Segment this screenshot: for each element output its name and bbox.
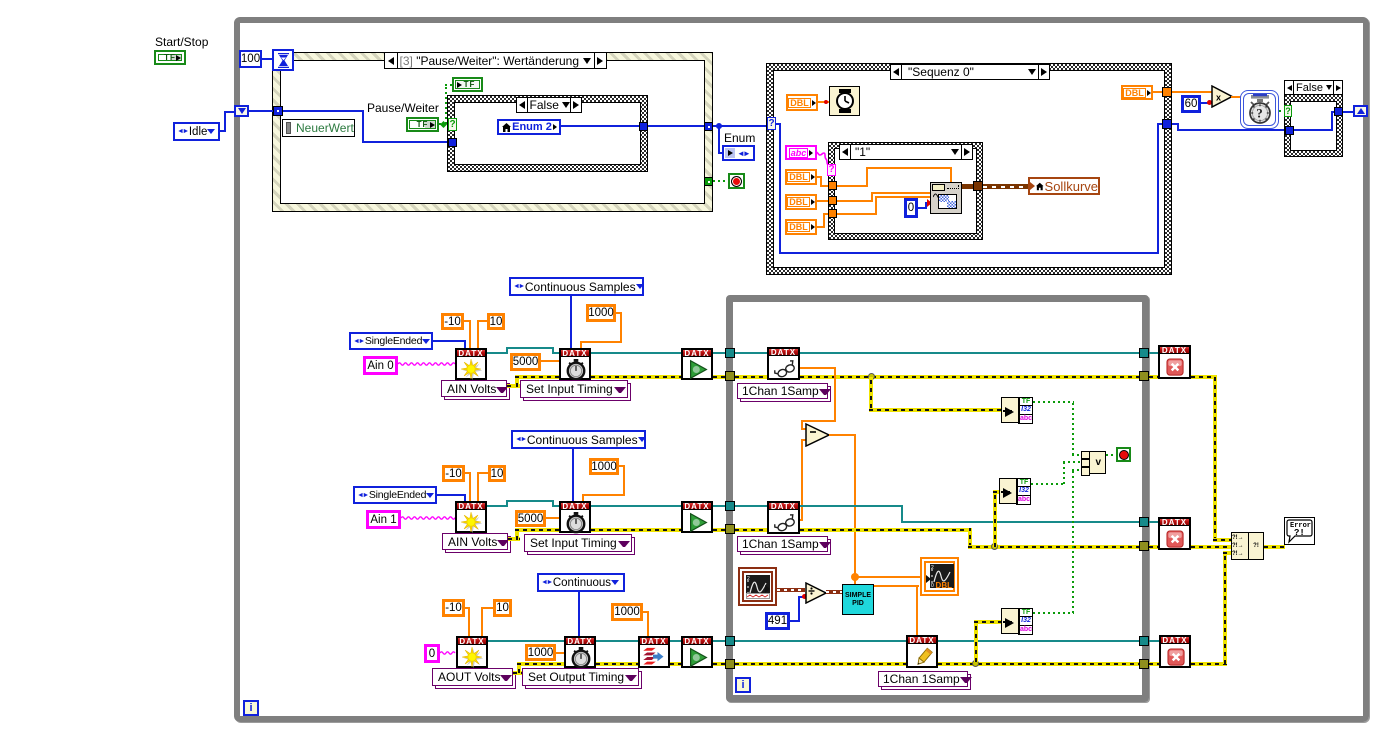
wire 491 to divide bbox=[790, 620, 800, 622]
junction dot error row1 bbox=[868, 373, 875, 380]
stop button (red round) bbox=[728, 173, 745, 189]
label AIN Volts (row1) bbox=[441, 380, 507, 397]
error wire X3 to merge bbox=[1191, 662, 1227, 666]
event timeout terminal (hourglass) bbox=[272, 49, 294, 71]
local variable Sollkurve bbox=[1028, 177, 1100, 195]
unbundle node u1 (error cluster) bbox=[1001, 397, 1033, 423]
DATX node stopwatch (row3: Set Output Timing) bbox=[564, 636, 596, 668]
teal task wire sun to timing (row2) bbox=[487, 505, 508, 507]
tunnel error row2 right bbox=[1139, 541, 1149, 551]
constant 0 (blue) bbox=[904, 198, 918, 218]
iteration terminal i (inner loop) bbox=[735, 677, 751, 693]
constant -10 (row1) bbox=[441, 313, 464, 330]
tunnel (brown, case "1" right) bbox=[973, 181, 983, 191]
green dotted wire u1 to OR bbox=[1033, 401, 1074, 403]
local variable Enum 2 bbox=[497, 119, 561, 135]
compound OR node bbox=[1081, 451, 1106, 474]
enum SingleEnded (row1) bbox=[349, 332, 433, 350]
wire Idle to shift register bbox=[219, 130, 226, 132]
case label False (small) bbox=[1284, 80, 1343, 95]
wire case tunnel to event tunnel bbox=[648, 125, 705, 127]
wire 10 to sun (row2) bbox=[477, 472, 488, 474]
teal wire row3 inner bbox=[735, 640, 906, 642]
error handler icon (Error ?!) bbox=[1284, 517, 1315, 545]
teal wire to X2 bbox=[1149, 521, 1158, 523]
boolean control Pause/Weiter TF bbox=[406, 117, 439, 132]
green dotted wire u2 to OR bbox=[1031, 483, 1065, 485]
error wire row3 bbox=[513, 671, 522, 675]
DATX node play (row1: Start) bbox=[681, 348, 713, 380]
case label False bbox=[516, 97, 582, 113]
teal wire to X3 bbox=[1149, 640, 1159, 642]
constant 491 bbox=[765, 612, 790, 630]
wire 10 to sun (row3) bbox=[481, 607, 493, 609]
junction dot error row2 bbox=[991, 543, 998, 550]
label Set Output Timing bbox=[522, 668, 639, 686]
label AOUT Volts bbox=[432, 668, 513, 686]
junction dot orange bbox=[851, 573, 859, 581]
wait (ms) clock icon bbox=[829, 86, 860, 116]
error branch up to unbundle2 bbox=[993, 490, 997, 547]
wire -10 to sun (row3) bbox=[465, 607, 470, 609]
tunnel teal row3 left bbox=[725, 636, 735, 646]
svg-text:2: 2 bbox=[931, 565, 934, 571]
junction dot on enum wire bbox=[716, 123, 722, 129]
iteration terminal i (outer loop) bbox=[243, 700, 259, 716]
wire t2 to array node bbox=[837, 200, 873, 202]
inner case selector ? (pink) bbox=[827, 164, 836, 176]
error wire to X3 bbox=[1149, 662, 1159, 666]
string control Ain 1 bbox=[366, 510, 401, 529]
waveform chart terminal (brown) bbox=[738, 567, 777, 606]
label 1Chan 1Samp (row3) bbox=[878, 671, 968, 687]
wire tunnel to multiply bbox=[1172, 91, 1212, 93]
error branch up to unbundle3 bbox=[974, 620, 978, 662]
constant 5000 (row2) bbox=[515, 510, 546, 527]
wire DBLb to tunnel t2 bbox=[817, 200, 829, 202]
unbundle node u3 bbox=[1001, 608, 1033, 634]
wire 10 to sun node bbox=[477, 320, 487, 322]
green dotted wire to False case selector bbox=[1279, 110, 1286, 112]
enum wire through sequenz case (down, across, up) bbox=[776, 123, 781, 125]
error wire row3 inner bbox=[735, 662, 906, 666]
terminal abc (string) bbox=[785, 145, 817, 160]
wire sequenz tunnel to False case bbox=[1172, 123, 1179, 125]
tunnel t2 (orange) bbox=[828, 196, 837, 205]
constant 10 (row3) bbox=[493, 599, 512, 617]
wire 5000 to timing (row2) bbox=[546, 517, 560, 519]
stop button (inner loop) bbox=[1116, 447, 1131, 462]
DATX node glasses (row1: read) bbox=[767, 347, 800, 380]
wire 0 to array node bbox=[918, 207, 927, 209]
wire 1000 to timing node bbox=[616, 312, 622, 314]
green dotted wire to stop button bbox=[713, 180, 729, 182]
wire 1000 to timing (row2) bbox=[619, 465, 625, 467]
orange wire PID to write node bbox=[874, 585, 919, 587]
svg-text:2: 2 bbox=[747, 576, 750, 582]
teal wire row3 (sun to timing) bbox=[488, 640, 565, 642]
wire 1000 to timing (row3) bbox=[556, 652, 565, 654]
wire 5000 to timing node bbox=[541, 360, 560, 362]
constant 100 bbox=[239, 50, 262, 68]
teal wire row1 (timing to play to loop) bbox=[591, 352, 681, 354]
DBL waveform indicator (orange) bbox=[920, 557, 959, 596]
teal wire to X1 bbox=[1149, 352, 1158, 354]
DATX node stack (row3: write buffer) bbox=[638, 636, 670, 668]
wire -10 to sun (row2) bbox=[465, 472, 471, 474]
terminal DBL c bbox=[785, 219, 817, 235]
tunnel error row3 right bbox=[1139, 659, 1149, 669]
label AIN Volts (row2) bbox=[442, 533, 508, 550]
terminal DBL (wait time) bbox=[786, 94, 818, 111]
error wire row1 (label to timing to play to loop) bbox=[507, 384, 520, 388]
wire branch down to Enum indicator bbox=[718, 126, 720, 154]
wire enum down to timing (row2) bbox=[572, 449, 574, 502]
unbundle node u2 bbox=[999, 478, 1031, 504]
teal wire row2 inner (with step) bbox=[735, 505, 767, 507]
merge errors node bbox=[1231, 532, 1264, 560]
shift register right bbox=[1353, 105, 1368, 117]
tunnel teal row1 right bbox=[1139, 348, 1149, 358]
svg-text:0: 0 bbox=[931, 583, 934, 588]
error wire row2 inner (with step) bbox=[735, 528, 767, 532]
string control Ain 0 bbox=[363, 356, 398, 375]
wire branch up to TF indicator (green dotted) bbox=[445, 84, 447, 124]
constant 1000 (row3 upper) bbox=[611, 603, 643, 621]
tunnel (sequenz right, orange) bbox=[1162, 87, 1172, 97]
tunnel teal row2 left bbox=[725, 501, 735, 511]
constant 1000 (row1) bbox=[586, 304, 616, 322]
enum indicator Enum bbox=[722, 145, 755, 161]
tunnel t1 (orange) bbox=[828, 181, 837, 190]
label 1Chan 1Samp (row1) bbox=[737, 383, 828, 399]
terminal DBL (rate, right) bbox=[1121, 85, 1153, 100]
pink wavy wire 0 to sun bbox=[440, 650, 456, 656]
case selector ? (green) bbox=[448, 118, 457, 131]
orange wire to DBL waveform indicator bbox=[856, 576, 920, 578]
error wire merge to error handler bbox=[1264, 545, 1285, 549]
orange wire glasses2 to subtract bbox=[800, 519, 803, 521]
wire DBL to tunnel bbox=[1153, 91, 1163, 93]
wire multiply to time delay bbox=[1231, 96, 1241, 98]
tunnel error row1 right bbox=[1139, 371, 1149, 381]
pink wavy wire Ain0 to sun bbox=[398, 361, 456, 367]
shift register left bbox=[234, 105, 249, 117]
divide node bbox=[805, 582, 827, 604]
wire enum down to timing node bbox=[570, 296, 572, 349]
event data node NeuerWert bbox=[282, 119, 355, 137]
DATX node pencil (row3: write) bbox=[906, 635, 938, 668]
DATX node stopwatch (row1: Set Input Timing) bbox=[559, 348, 591, 380]
pink wavy wire abc to inner selector bbox=[815, 150, 831, 170]
error wire X2 to merge bbox=[1191, 545, 1231, 549]
string constant 0 (row3) bbox=[424, 644, 440, 663]
wire divide to PID (brown dashed) bbox=[826, 590, 842, 594]
green dotted wire OR to stop bbox=[1106, 454, 1117, 456]
tunnel (event right, boolean out green) bbox=[704, 177, 713, 186]
DATX node X (row2: close) bbox=[1158, 517, 1191, 550]
waveform wire chart to divide (brown dashed) bbox=[777, 588, 805, 592]
coercion diamond on TF wire bbox=[440, 121, 447, 128]
constant 10 (row1) bbox=[487, 313, 505, 330]
tunnel teal row3 right bbox=[1139, 636, 1149, 646]
teal wire row2 (timing to play to loop) bbox=[591, 505, 681, 507]
tunnel (case right) bbox=[639, 122, 648, 131]
wire -10 to sun node bbox=[464, 320, 471, 322]
label Set Input Timing (row2) bbox=[524, 534, 632, 552]
wire TF to case selector (green dotted) bbox=[439, 123, 449, 125]
wire Enum2 to case right tunnel bbox=[561, 125, 639, 127]
node output wire to tunnel (brown) bbox=[962, 184, 974, 189]
wire t3 to array node bbox=[837, 213, 877, 215]
DATX node play (row3: Start) bbox=[681, 636, 713, 668]
error wire to X2 bbox=[1149, 545, 1158, 549]
orange wire subtract junction into PID top bbox=[854, 577, 856, 584]
DATX node play (row2: Start) bbox=[681, 501, 713, 533]
DATX node sun (row1: AIN init) bbox=[455, 348, 487, 380]
enum Continuous (row3) bbox=[537, 573, 625, 592]
case structure Sequenz 0 bbox=[766, 63, 1172, 275]
label Start/Stop bbox=[155, 35, 208, 49]
tunnel (False case left, blue) bbox=[1285, 126, 1294, 135]
case structure "1" bbox=[828, 142, 983, 240]
constant -10 (row3) bbox=[442, 599, 465, 617]
error branch down to unbundle1 bbox=[869, 377, 873, 408]
subtract node bbox=[805, 423, 830, 447]
wire event tunnel to sequenz selector bbox=[713, 125, 768, 127]
tunnel teal row1 left bbox=[725, 348, 735, 358]
error wire row2 bbox=[508, 537, 520, 541]
multiply node bbox=[1211, 85, 1233, 108]
waveform wire tunnel to Sollkurve (brown dashed) bbox=[983, 184, 1029, 189]
error wire X1 to merge bbox=[1191, 375, 1217, 379]
label 1Chan 1Samp (row2) bbox=[737, 536, 828, 552]
wire through False case bbox=[1294, 129, 1333, 131]
terminal DBL b bbox=[785, 194, 817, 210]
wire event tunnel to case tunnel bbox=[283, 110, 364, 112]
tunnel teal row2 right bbox=[1139, 517, 1149, 527]
boolean control Start/Stop TF bbox=[154, 50, 186, 65]
wire 1000 to write node bbox=[643, 611, 649, 613]
junction dot error row3 bbox=[972, 660, 979, 667]
event structure label bbox=[384, 52, 607, 69]
constant 5000 (row1) bbox=[510, 353, 541, 371]
while loop (outer) bbox=[234, 17, 1369, 722]
svg-text:?: ? bbox=[1256, 106, 1263, 121]
enum constant Idle bbox=[173, 122, 220, 141]
time delay express VI (stopwatch) bbox=[1240, 90, 1279, 129]
case structure False (inside event) bbox=[447, 95, 648, 172]
tunnel error row1 left bbox=[725, 371, 735, 381]
enum Continuous Samples (row2) bbox=[511, 430, 646, 449]
while loop (inner) bbox=[726, 295, 1149, 702]
teal wire row1 inner bbox=[735, 352, 767, 354]
case label "Sequenz 0" bbox=[890, 64, 1050, 80]
error wire row1 inner bbox=[735, 375, 767, 379]
wire 60 to multiply bbox=[1201, 102, 1212, 104]
array/waveform build node bbox=[930, 182, 962, 214]
label Pause/Weiter bbox=[367, 101, 439, 115]
tunnel error row3 left bbox=[725, 659, 735, 669]
constant 60 bbox=[1181, 95, 1201, 113]
tunnel error row2 left bbox=[725, 524, 735, 534]
enum SingleEnded (row2) bbox=[353, 486, 437, 504]
green dotted wire u3 to OR bbox=[1033, 612, 1074, 614]
wire 100 to timeout bbox=[261, 58, 273, 60]
selector ? (green) on False case bbox=[1284, 105, 1292, 117]
constant 1000 (row3 left) bbox=[525, 644, 556, 661]
case structure False (top right) bbox=[1284, 80, 1343, 157]
tunnel (False case right, blue) bbox=[1334, 107, 1343, 116]
constant -10 (row2) bbox=[442, 465, 465, 482]
tunnel t3 (orange) bbox=[828, 209, 837, 218]
DATX node sun (row2: AIN init) bbox=[455, 501, 487, 533]
label Enum bbox=[724, 131, 755, 145]
enum Continuous Samples (row1) bbox=[509, 277, 644, 296]
SIMPLE PID node bbox=[842, 584, 874, 615]
wire False case to shift register bbox=[1343, 111, 1354, 113]
wire DBL to wait clock bbox=[818, 101, 829, 103]
DATX node X (row1: close) bbox=[1158, 345, 1191, 379]
svg-text:x: x bbox=[1216, 93, 1221, 103]
orange wire glasses1 to subtract bbox=[800, 367, 836, 369]
wire shift register to event tunnel bbox=[249, 110, 273, 112]
wire enum down to timing (row3) bbox=[578, 592, 580, 636]
case label "1" bbox=[839, 144, 973, 160]
DATX node stopwatch (row2: Set Input Timing) bbox=[559, 501, 591, 533]
teal wire row3 (timing to stack to play to loop) bbox=[596, 640, 638, 642]
DATX node X (row3: close) bbox=[1159, 635, 1191, 668]
event structure border bbox=[272, 52, 713, 212]
error wire to X1 bbox=[1149, 375, 1158, 379]
svg-text:?!: ?! bbox=[1294, 528, 1305, 538]
tunnel (sequenz right, enum) bbox=[1162, 119, 1172, 129]
DATX node glasses (row2: read) bbox=[767, 501, 800, 534]
wire t1 to array node (top route) bbox=[837, 185, 868, 187]
tunnel (event right, enum out) bbox=[704, 122, 713, 131]
boolean indicator TF bbox=[452, 77, 483, 92]
case selector ? (blue) bbox=[767, 117, 776, 130]
wire DBLc to tunnel t3 bbox=[817, 226, 825, 228]
constant 10 (row2) bbox=[488, 465, 506, 482]
subtract output wire down to PID area bbox=[829, 434, 856, 436]
pink wavy wire Ain1 to sun bbox=[401, 515, 456, 521]
constant 1000 (row2) bbox=[589, 458, 619, 475]
wire SingleEnded to sun node bbox=[433, 340, 466, 342]
tunnel (case left, blue) bbox=[448, 138, 457, 147]
wire DBLa to tunnel t1 bbox=[817, 176, 822, 178]
teal task wire sun to timing (row1) bbox=[487, 352, 508, 354]
tunnel (event left, enum wire in) bbox=[273, 106, 283, 116]
wire SingleEnded to sun (row2) bbox=[437, 494, 466, 496]
DATX node sun (row3: AOUT init) bbox=[456, 636, 488, 668]
terminal DBL a bbox=[785, 169, 817, 185]
label Set Input Timing (row1) bbox=[520, 380, 628, 398]
